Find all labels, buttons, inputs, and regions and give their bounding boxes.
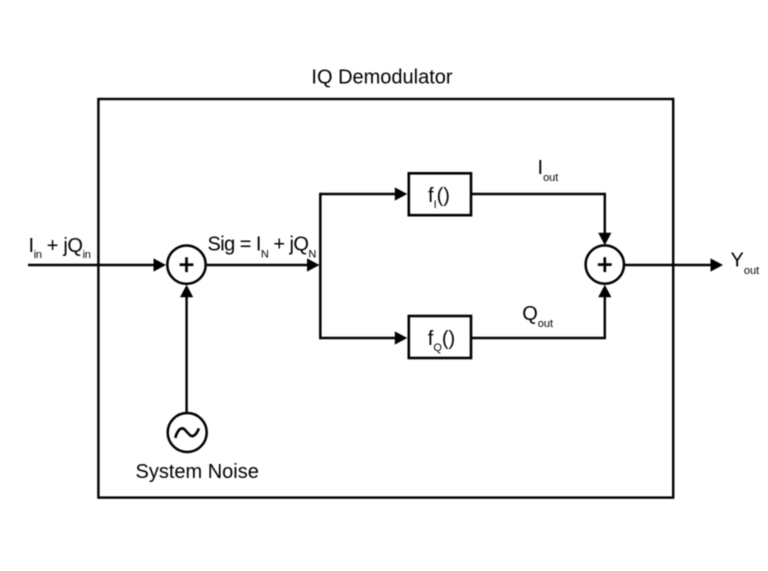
wire: fI output to summing junction S2 (right then down) <box>472 194 605 233</box>
block fQ() <box>409 316 471 358</box>
wire: S2 output to Yout <box>625 264 712 266</box>
svg-text:IQ Demodulator: IQ Demodulator <box>311 67 453 89</box>
svg-text:System Noise: System Noise <box>136 461 259 483</box>
summing junction S2 <box>586 245 624 283</box>
wire: S1 output to branch node <box>207 264 308 266</box>
wire: input from left edge to summing junction S1 <box>28 264 154 266</box>
wire: upper branch into block fI <box>320 193 395 195</box>
summing junction S1 <box>167 246 205 284</box>
wire: fQ output to summing junction S2 (right then up) <box>472 297 605 338</box>
noise source N1 (AC symbol) <box>168 413 207 452</box>
outer box: IQ Demodulator boundary <box>98 99 673 498</box>
block fI() <box>409 173 471 215</box>
wire: branch vertical at node <box>319 193 322 339</box>
wire: noise source up into S1 <box>185 297 187 413</box>
wire: lower branch into block fQ <box>320 337 395 339</box>
